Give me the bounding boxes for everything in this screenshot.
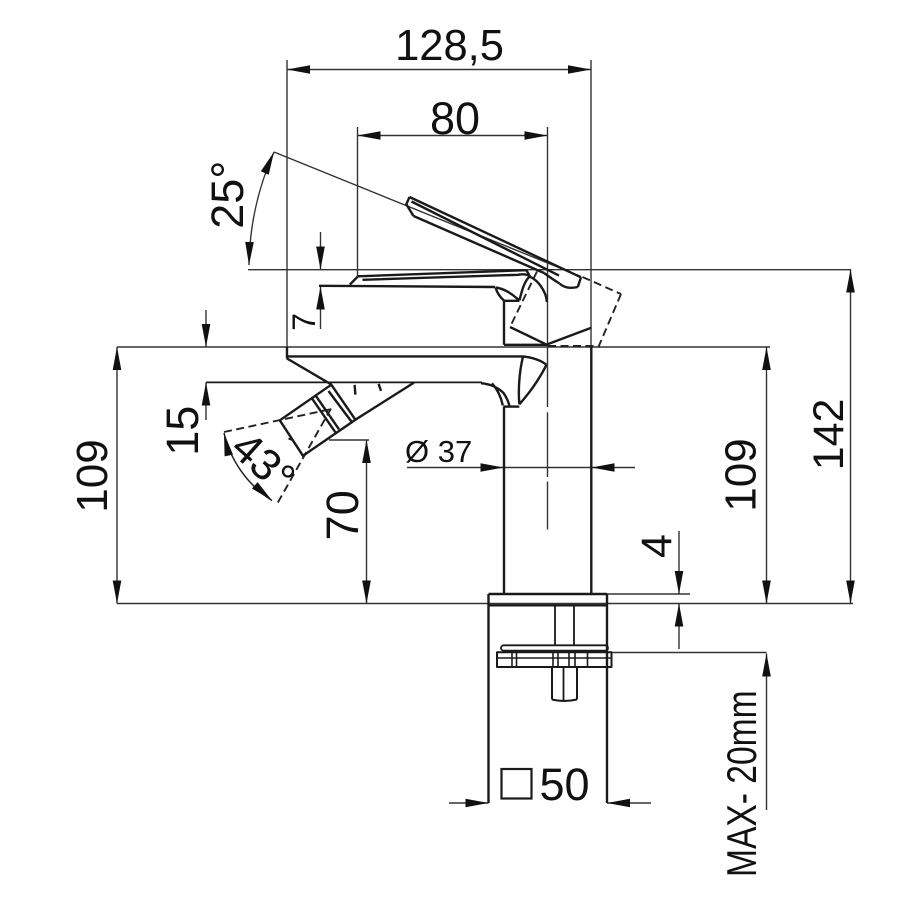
dashed 43deg ray2 (277, 409, 331, 505)
arrow 4 upper (675, 571, 684, 594)
dim dia37 right tail (592, 467, 636, 469)
70 top reference (329, 439, 369, 441)
washer disc (501, 645, 608, 650)
43deg arc (224, 433, 272, 501)
arrow dia37 right (592, 463, 615, 472)
lever left end cap (406, 197, 413, 216)
arrow 80 right (525, 131, 548, 140)
deck bottom line (206, 381, 482, 383)
extension line left 128,5 (286, 60, 288, 347)
base plate bottom (489, 604, 608, 606)
svg-text:4: 4 (633, 534, 681, 558)
stud right (573, 605, 575, 645)
dim dia37 left (407, 467, 504, 469)
column left edge (503, 407, 505, 594)
svg-text:142: 142 (805, 399, 853, 471)
stud left (554, 605, 556, 645)
boss edge (355, 383, 414, 420)
lower small claw (481, 383, 510, 406)
nut right (576, 667, 578, 700)
svg-text:109: 109 (717, 438, 766, 511)
dim line 109 right (766, 347, 768, 604)
arrow 109L bottom (113, 581, 122, 604)
25deg arc (249, 152, 274, 265)
dim 15 upper tail (205, 310, 207, 347)
arrow 4 lower (675, 604, 684, 627)
extension washer bottom right (612, 652, 767, 654)
boss tick1 (353, 385, 356, 395)
svg-text:70: 70 (317, 490, 368, 540)
arrow 142 top (846, 270, 855, 293)
dim line 142 (850, 270, 852, 604)
arrow 70 bottom (362, 581, 371, 604)
spray head body (280, 385, 356, 456)
svg-text:109: 109 (68, 439, 117, 512)
horizontal deck line y603.5 (117, 603, 853, 605)
svg-text:Ø 37: Ø 37 (405, 434, 472, 469)
body bottom line (504, 344, 548, 346)
dashed cartridge right edge (598, 294, 621, 348)
arrow 7 upper (316, 247, 325, 270)
svg-text:15: 15 (157, 406, 208, 456)
lever underside (414, 216, 545, 273)
arrow 50 right (607, 799, 630, 808)
upper claw base line (504, 300, 520, 302)
deck left edge (286, 347, 288, 358)
centerline of column (547, 366, 549, 530)
extension base plate top right (607, 593, 690, 595)
lever tip end face (578, 277, 581, 287)
lower body right edge (606, 594, 608, 803)
lower body left edge (487, 594, 489, 803)
dashed cartridge left edge (510, 272, 537, 328)
flange slots (512, 652, 588, 667)
nut left (551, 667, 553, 700)
arrow 128,5 left (287, 65, 310, 74)
dim max20 line (766, 654, 768, 811)
dim 50 right tail (607, 802, 651, 804)
dashed cartridge top right (583, 277, 622, 294)
spray head band line2 (312, 398, 336, 432)
arrow 15 lower (202, 383, 211, 406)
lower claw base line (504, 405, 520, 407)
lever tip smile (560, 284, 578, 288)
deck top line (287, 355, 523, 357)
spout left chamfer (350, 276, 358, 284)
upper small claw (496, 288, 520, 301)
flange mid line (497, 657, 612, 659)
arrow 128,5 right (568, 65, 591, 74)
arrow 109R bottom (762, 581, 771, 604)
nut bottom (552, 700, 577, 702)
spray head inner edge (329, 391, 353, 423)
horizontal reference line y270 (248, 269, 851, 271)
svg-text:MAX- 20mm: MAX- 20mm (720, 690, 766, 877)
svg-text:80: 80 (430, 93, 480, 144)
arrow 43deg bottom (252, 482, 272, 500)
arrow 80 left (358, 131, 381, 140)
arrow 109R top (762, 347, 771, 370)
dim line 109 left (116, 347, 118, 604)
arrow 70 top (362, 440, 371, 463)
25deg reference diagonal (274, 152, 581, 277)
lever underside curl (544, 273, 560, 284)
arrow 15 upper (202, 324, 211, 347)
base plate top (489, 593, 608, 595)
body left edge upper (503, 301, 505, 345)
arrow 7 lower (316, 287, 325, 310)
spray head band line1 (316, 395, 340, 429)
dim 4 upper tail (678, 531, 680, 594)
extension line right 128,5 / column right (590, 60, 592, 347)
extension line right 80 (547, 127, 549, 366)
dim dia37 crossing (504, 467, 592, 469)
svg-text:7: 7 (286, 313, 322, 331)
dashed cartridge bottom (548, 345, 598, 347)
head edge tick (289, 439, 294, 441)
horizontal reference line y347 (117, 346, 770, 348)
dim 4 lower tail (678, 604, 680, 650)
spout face edge (319, 286, 495, 287)
spout top line2 (363, 274, 531, 280)
svg-text:128,5: 128,5 (395, 22, 504, 70)
column right edge (590, 347, 592, 594)
svg-text:50: 50 (539, 759, 589, 810)
arrow max20 up (762, 654, 771, 677)
dim 7 lower tail (320, 287, 322, 330)
dim 7 upper tail (320, 232, 322, 270)
dashed 43deg ray1 (224, 409, 334, 433)
arrow dia37 left (481, 463, 504, 472)
nut middle (563, 667, 565, 701)
dim line 80 (358, 135, 548, 137)
arrow 50 left (466, 799, 489, 808)
body V cone (510, 327, 591, 345)
arrow 142 bottom (846, 581, 855, 604)
arrow 25deg bottom (245, 242, 254, 265)
dim 50 left tail (449, 802, 489, 804)
arrow 109L top (113, 347, 122, 370)
lever top edge (410, 197, 582, 277)
upper big claw (520, 270, 547, 302)
arrow 43deg top (224, 433, 233, 456)
arrow 25deg top (261, 152, 274, 175)
dim line 128,5 (287, 69, 591, 71)
flange block (497, 652, 612, 667)
deck left chamfer (287, 358, 332, 384)
extension line left 80 (357, 127, 359, 276)
square symbol (502, 769, 532, 799)
deck right wing (519, 356, 547, 404)
svg-text:25°: 25° (202, 161, 253, 229)
spout top line1 (358, 270, 526, 276)
dim line 70 (366, 440, 368, 604)
dim 15 lower tail (205, 383, 207, 421)
lever inner line (412, 202, 560, 276)
boss tick2 (379, 384, 381, 391)
